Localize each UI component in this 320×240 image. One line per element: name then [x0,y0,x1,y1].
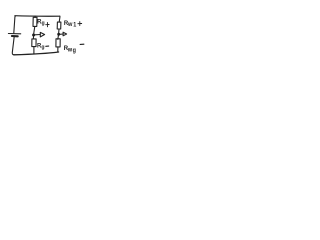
svg-text:g: g [41,44,45,50]
svg-text:g: g [73,48,77,54]
svg-text:w: w [67,47,73,53]
svg-text:g: g [42,20,46,26]
svg-text:w: w [67,22,73,28]
svg-text:1: 1 [73,22,77,28]
